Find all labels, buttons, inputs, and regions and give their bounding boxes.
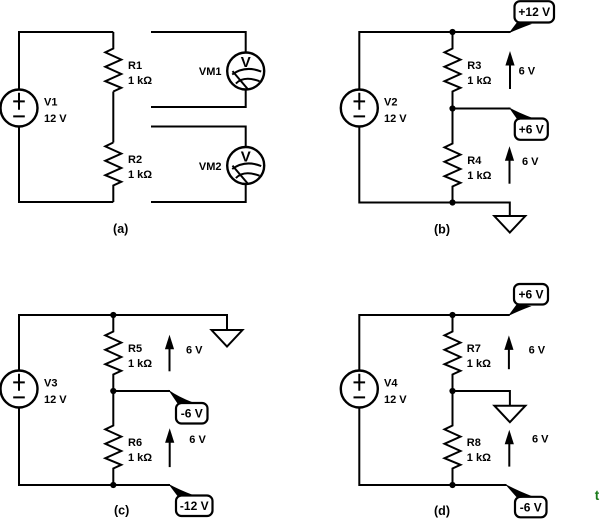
- svg-text:R8: R8: [467, 437, 481, 449]
- svg-text:6 V: 6 V: [519, 66, 536, 78]
- voltage source V1: [1, 90, 38, 127]
- svg-text:1 kΩ: 1 kΩ: [128, 75, 152, 87]
- svg-text:+6 V: +6 V: [519, 122, 544, 136]
- resistor R3: [445, 32, 461, 109]
- wire (c) left-bottom from V3 to node -12V: [19, 408, 170, 486]
- wire (d) left-bottom from V4 to node -6V: [359, 408, 506, 486]
- resistor R2: [105, 143, 121, 203]
- svg-text:-6 V: -6 V: [181, 407, 203, 421]
- arrow 6 V across R3: [505, 51, 514, 89]
- svg-text:(a): (a): [113, 222, 128, 236]
- wire (d) middle node to ground: [453, 391, 510, 406]
- junction node top (c): [110, 312, 116, 318]
- svg-text:R1: R1: [128, 60, 142, 72]
- net flag +6 V (d): [508, 284, 548, 316]
- arrow 6 V across R7: [504, 335, 513, 369]
- svg-text:R3: R3: [467, 60, 481, 72]
- junction node bottom (b): [449, 199, 455, 205]
- label R3 1 kΩ: [467, 60, 491, 87]
- junction node middle (b): [449, 105, 455, 111]
- junction node middle (c): [110, 388, 116, 394]
- svg-text:(b): (b): [434, 223, 450, 237]
- svg-text:R4: R4: [467, 155, 482, 167]
- junction node top (b): [449, 29, 455, 35]
- svg-text:6 V: 6 V: [532, 434, 549, 446]
- svg-text:R6: R6: [128, 437, 142, 449]
- wire (b) left-top from V2 to node +12V: [359, 32, 510, 90]
- svg-text:R5: R5: [128, 343, 142, 355]
- label R8 1 kΩ: [467, 437, 491, 464]
- net flag -6 V (c): [168, 390, 207, 424]
- svg-text:1 kΩ: 1 kΩ: [128, 358, 152, 370]
- svg-text:R2: R2: [128, 154, 142, 166]
- label R6 1 kΩ: [128, 437, 152, 464]
- junction node middle (d): [449, 388, 455, 394]
- svg-text:6 V: 6 V: [186, 345, 203, 357]
- label V3 12 V: [44, 378, 67, 407]
- label R1 1 kΩ: [128, 60, 152, 87]
- svg-text:(d): (d): [434, 504, 450, 518]
- wire VM2 bottom lead: [151, 184, 246, 202]
- svg-text:V3: V3: [44, 378, 57, 390]
- svg-text:1 kΩ: 1 kΩ: [128, 452, 152, 464]
- resistor R8: [445, 391, 461, 485]
- svg-text:1 kΩ: 1 kΩ: [467, 170, 491, 182]
- svg-text:1 kΩ: 1 kΩ: [467, 358, 491, 370]
- svg-text:R7: R7: [467, 343, 481, 355]
- voltmeter VM2: [227, 147, 264, 184]
- svg-text:-12 V: -12 V: [180, 499, 209, 513]
- label R7 1 kΩ: [467, 343, 491, 370]
- wire (d) left-top from V4 to node +6V: [359, 315, 509, 371]
- svg-text:12 V: 12 V: [44, 394, 67, 406]
- wire VM2 top lead: [151, 127, 246, 148]
- stray green letter t at right edge: [595, 488, 600, 503]
- label R2 1 kΩ: [128, 154, 152, 181]
- resistor R5: [105, 315, 121, 391]
- ground (d): [494, 406, 525, 423]
- svg-text:+6 V: +6 V: [518, 288, 543, 302]
- svg-text:12 V: 12 V: [384, 113, 407, 125]
- wire (c) left-top from V3 to ground rail: [19, 315, 227, 371]
- svg-text:+12 V: +12 V: [518, 5, 550, 19]
- label R4 1 kΩ: [467, 155, 491, 182]
- net flag -12 V: [168, 484, 212, 516]
- net flag +12 V: [509, 1, 554, 33]
- svg-text:VM1: VM1: [199, 66, 222, 78]
- svg-text:6 V: 6 V: [522, 156, 539, 168]
- voltmeter VM1: [227, 53, 264, 90]
- svg-text:(c): (c): [114, 504, 129, 518]
- junction node bottom (c): [110, 482, 116, 488]
- wire (c) middle node to -6V flag: [113, 390, 170, 392]
- svg-text:1 kΩ: 1 kΩ: [467, 75, 491, 87]
- arrow 6 V across R5: [165, 335, 174, 372]
- wire (b) middle node to +6V flag: [453, 108, 511, 110]
- arrow 6 V across R6: [165, 428, 174, 467]
- wire (b) left-bottom from V2 to ground rail: [359, 127, 510, 217]
- wire (a) left-bottom from V1 to R2 bottom: [19, 127, 113, 203]
- svg-text:V4: V4: [384, 378, 398, 390]
- junction node bottom (d): [449, 482, 455, 488]
- wire VM1 bottom lead: [151, 90, 246, 108]
- wire (a) left-top from V1 to R1 top: [19, 32, 113, 90]
- svg-text:12 V: 12 V: [384, 394, 407, 406]
- voltage source V3: [1, 371, 38, 408]
- resistor R6: [105, 391, 121, 485]
- svg-text:1 kΩ: 1 kΩ: [128, 169, 152, 181]
- svg-text:6 V: 6 V: [529, 345, 546, 357]
- arrow 6 V across R4: [505, 146, 514, 184]
- label V2 12 V: [384, 97, 407, 126]
- voltage source V4: [341, 371, 378, 408]
- wire (a) between R1 and R2: [112, 92, 114, 143]
- ground (c): [212, 330, 243, 347]
- label V4 12 V: [384, 378, 407, 407]
- voltage source V2: [341, 90, 378, 127]
- resistor R7: [445, 315, 461, 391]
- svg-text:VM2: VM2: [199, 161, 222, 173]
- svg-text:6 V: 6 V: [189, 434, 206, 446]
- junction node top (d): [449, 312, 455, 318]
- svg-text:1 kΩ: 1 kΩ: [467, 452, 491, 464]
- net flag -6 V (d): [505, 484, 547, 518]
- label R5 1 kΩ: [128, 343, 152, 370]
- svg-text:12 V: 12 V: [44, 113, 67, 125]
- svg-text:V2: V2: [384, 97, 397, 109]
- arrow 6 V across R8: [505, 430, 514, 467]
- resistor R4: [445, 109, 461, 203]
- net flag +6 V (b): [509, 107, 548, 140]
- svg-text:V1: V1: [44, 97, 57, 109]
- svg-text:-6 V: -6 V: [520, 500, 542, 514]
- resistor R1: [105, 32, 121, 92]
- ground (b): [494, 216, 525, 233]
- label V1 12 V: [44, 97, 67, 126]
- wire VM1 top lead: [151, 32, 246, 53]
